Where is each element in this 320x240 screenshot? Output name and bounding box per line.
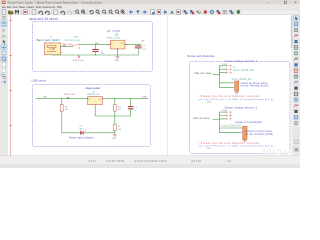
toolbar icon mag [116, 10, 119, 13]
svg-text:0.1u: 0.1u [143, 49, 147, 51]
12V rail wire [36, 98, 148, 100]
toolbar icon mag [76, 10, 79, 13]
svg-text:mm: mm [227, 160, 231, 163]
right toolbar icon [294, 115, 298, 119]
connector J5 pins [226, 111, 232, 120]
svg-text:Barrel_Jack_Switch: Barrel_Jack_Switch [37, 38, 60, 42]
resistor R5 body [113, 124, 116, 131]
left toolbar icon [2, 68, 5, 72]
svg-text:✕: ✕ [294, 1, 297, 5]
toolbar icon arc [39, 11, 43, 15]
resistor R3 body [60, 105, 63, 112]
left toolbar icon [2, 63, 5, 67]
svg-text:GND: GND [207, 101, 212, 103]
svg-text:PWR_FLAG: PWR_FLAG [73, 59, 84, 62]
resistor R3 top stub [61, 99, 63, 105]
svg-text:PWR_OUT_BUS1: PWR_OUT_BUS1 [194, 73, 212, 75]
toolbar icon refresh [90, 10, 93, 13]
capacitor C1 bottom stub wire [95, 51, 97, 55]
svg-text:SPDT-2P5T-CM-2: SPDT-2P5T-CM-2 [65, 40, 82, 42]
capacitor C3 [128, 106, 133, 108]
toolbar icon mag [96, 10, 99, 13]
connector J1 body [45, 43, 61, 55]
toolbar icon pageb [151, 10, 155, 14]
svg-text:Power Input Indicator: Power Input Indicator [69, 136, 94, 139]
capacitor C2 top stub [137, 45, 139, 46]
jack ground stub [51, 54, 53, 56]
right toolbar icon [294, 81, 298, 84]
svg-text:PWR_OUT_BUS2: PWR_OUT_BUS2 [193, 118, 211, 120]
left toolbar icon [1, 56, 7, 62]
svg-text:voltage regulator: voltage regulator [85, 87, 100, 90]
svg-text:Conn_02x02_Pin: Conn_02x02_Pin [233, 69, 255, 72]
connector J3 pin stubs [241, 128, 243, 133]
capacitor C2 bottom stub [137, 48, 139, 55]
toolbar icon duo [184, 10, 186, 12]
right toolbar icon [294, 98, 297, 101]
svg-text:*Bread Power Supply — [Bread P: *Bread Power Supply — [Bread Power Suppl… [8, 0, 102, 4]
svg-text:3.3V: 3.3V [142, 97, 147, 99]
left toolbar icon [3, 40, 6, 44]
svg-text:output to breadboard: output to breadboard [235, 121, 263, 124]
toolbar icon pagered [157, 10, 161, 14]
wire jack to switch [61, 45, 72, 47]
resistor R4 body [113, 105, 116, 112]
power flag symbol [67, 97, 69, 98]
toolbar icon grid [223, 9, 227, 11]
ground under connector [235, 91, 238, 93]
stub wires to pins [219, 65, 225, 67]
window background [0, 0, 300, 168]
toolbar icon arc [61, 11, 65, 15]
bus riser wire [218, 66, 220, 88]
toolbar icon arcg [67, 11, 71, 15]
ground under connector [243, 140, 246, 142]
bus riser wire [218, 112, 220, 133]
main 12V rail wire [80, 44, 141, 46]
wire bus label to riser [213, 73, 220, 75]
right toolbar icon [294, 75, 297, 78]
toolbar icon floppy [15, 10, 19, 14]
toolbar icon mag [103, 10, 106, 13]
right toolbar icon [294, 28, 297, 31]
svg-text:output to jumper wires: output to jumper wires [245, 130, 272, 133]
right toolbar icon [294, 34, 298, 37]
toolbar icon mag [109, 10, 112, 13]
svg-text:USB circuit: USB circuit [32, 78, 46, 82]
ground symbol circuit2 [113, 133, 117, 136]
capacitor C2 [135, 45, 141, 47]
power flag on ground rail [79, 55, 81, 58]
right toolbar icon [294, 121, 297, 124]
svg-text:12V: 12V [43, 97, 47, 99]
right toolbar icon [294, 69, 298, 73]
right toolbar icon [294, 92, 298, 96]
connector J4 pins [226, 65, 232, 74]
right toolbar [293, 15, 300, 156]
regulator U2 pin stubs [108, 45, 127, 51]
right toolbar icon [294, 40, 297, 43]
toolbar icon arrl [130, 11, 133, 14]
right toolbar icon [294, 22, 298, 26]
right toolbar icon [294, 52, 297, 55]
svg-text:in: in [2, 28, 5, 33]
toolbar icon erc [197, 11, 199, 13]
left toolbar icon [2, 74, 5, 76]
wire R5 bottom [114, 131, 116, 133]
left toolbar [0, 15, 8, 156]
wires to J3 [219, 127, 240, 129]
toolbar icon page [32, 10, 36, 14]
capacitor C1 [93, 49, 99, 51]
svg-text:GND: GND [114, 60, 119, 62]
junction C1 bottom [95, 55, 96, 56]
svg-text:! Please flip the wire Switche: ! Please flip the wire Switcher vertical… [198, 142, 260, 145]
svg-text:SW1: SW1 [74, 37, 80, 39]
svg-text:use the GPIO pin 1 to GND (arr: use the GPIO pin 1 to GND (arranged belo… [198, 98, 273, 101]
connector J2 pin stubs [233, 83, 235, 88]
svg-text:GND: GND [207, 148, 212, 150]
toolbar icon dotr [204, 10, 207, 13]
regulator U3 bottom pin wire [95, 105, 130, 116]
svg-text:Conn_01x02_Pin: Conn_01x02_Pin [222, 125, 242, 127]
toolbar icon magr [121, 10, 124, 13]
toolbar icon arc [45, 11, 49, 15]
svg-text:Output and Switches: Output and Switches [187, 54, 215, 58]
svg-text:(to row, Terminal_01x02): (to row, Terminal_01x02) [245, 133, 273, 136]
toolbar icon pagered [177, 10, 181, 14]
toolbar icon duo [230, 10, 232, 12]
toolbar icon arru [137, 10, 140, 13]
menu bar [0, 5, 300, 9]
sheet left border [10, 15, 12, 155]
toolbar icon globe [210, 10, 214, 14]
left toolbar icon [1, 21, 7, 27]
resistor R4 top stub [114, 99, 116, 105]
right toolbar icon [294, 46, 298, 50]
kicad app icon [2, 1, 5, 4]
svg-text:(to row, Terminal_01x02): (to row, Terminal_01x02) [241, 85, 269, 88]
svg-text:input and 3A circuit: input and 3A circuit [29, 17, 58, 21]
switch SW1 symbol [71, 46, 72, 47]
wire LED to R5 [84, 132, 115, 134]
regulator U2 bottom pin wire [117, 49, 119, 55]
ground symbol GND circuit1 [116, 55, 120, 58]
svg-text:L78S05_TO220: L78S05_TO220 [106, 38, 121, 40]
svg-text:File Edit View Place Inspe: File Edit View Place Inspect Tools Prefe… [2, 6, 63, 9]
stub wires [219, 111, 225, 113]
section box circuit 2 [32, 85, 150, 147]
svg-text:dx 97.31 dy 86.88 dist 130.3: dx 97.31 dy 86.88 dist 130.37 [134, 160, 167, 163]
svg-text:! Please flip the wire Switche: ! Please flip the wire Switcher vertical… [198, 95, 260, 98]
right toolbar icon [294, 110, 297, 113]
junction regulator gnd [117, 55, 118, 56]
svg-text:–: – [267, 0, 269, 4]
wire R3 to LED [62, 111, 80, 133]
right toolbar icon [294, 63, 297, 66]
left toolbar icon [2, 15, 6, 17]
toolbar icon page [54, 10, 58, 14]
regulator U2 body [111, 40, 125, 49]
toolbar icon magr [82, 10, 85, 13]
svg-text:Output voltage selector 2: Output voltage selector 2 [225, 105, 258, 109]
capacitor C1 top stub wire [95, 45, 97, 50]
toolbar icon folder [8, 11, 13, 14]
regulator U3 pin stubs [85, 99, 104, 107]
left toolbar icon [1, 44, 7, 50]
svg-text:GND: GND [112, 138, 117, 140]
regulator U3 body [88, 97, 103, 105]
svg-text:PWR_FLAG: PWR_FLAG [64, 93, 75, 96]
left toolbar icon [2, 57, 5, 60]
status bar [0, 156, 300, 168]
toolbar icon chip [237, 10, 240, 13]
toolbar icon duor [190, 10, 192, 12]
wire R4 bottom to mid rail [114, 111, 116, 124]
toolbar rounded field right [241, 10, 299, 15]
wires to J2 [219, 82, 232, 84]
toolbar icon page [2, 10, 6, 14]
left toolbar icon [2, 81, 6, 84]
section box circuit 1 [33, 22, 153, 72]
toolbar icon pagered [24, 10, 28, 14]
capacitor C3 bottom stub [130, 109, 132, 116]
toolbar icon arrr [143, 11, 146, 14]
title bar [0, 0, 300, 5]
svg-text:Z 2.79: Z 2.79 [89, 160, 97, 163]
svg-text:LED: LED [79, 128, 83, 130]
section box output [190, 62, 290, 154]
canvas [8, 15, 291, 156]
right toolbar icon [294, 104, 298, 107]
page limit line [167, 15, 169, 155]
svg-text:grid 2.54: grid 2.54 [191, 160, 201, 163]
svg-text:Output voltage selector 1: Output voltage selector 1 [225, 59, 258, 63]
svg-text:1u: 1u [134, 110, 136, 112]
right toolbar icon [293, 16, 299, 21]
right toolbar bottom icons [294, 140, 299, 152]
right toolbar icon [294, 87, 297, 90]
svg-text:AMS1117-3.3: AMS1117-3.3 [87, 93, 100, 96]
svg-text:X 97.31 Y 86.88: X 97.31 Y 86.88 [106, 160, 124, 163]
vertical scrollbar [291, 15, 293, 156]
top toolbar [0, 9, 300, 15]
wire bus label to riser [213, 119, 220, 121]
right toolbar icon [294, 57, 298, 60]
junction on input wire [63, 46, 64, 47]
toolbar icon duor [217, 10, 219, 12]
connector J3 body [243, 126, 247, 139]
LED D4 symbol [80, 131, 83, 135]
svg-text:output to jumper wires: output to jumper wires [241, 82, 268, 85]
ground rail wire [52, 54, 138, 56]
connector J2 body [235, 81, 239, 91]
junction at C1 top [95, 44, 96, 45]
svg-text:MC 7805S: MC 7805S [107, 30, 120, 33]
toolbar icon play [164, 10, 167, 14]
power flag symbol on input wire [64, 45, 66, 46]
capacitor C3 top stub [130, 99, 132, 107]
connector J1 pin stubs [61, 46, 63, 52]
